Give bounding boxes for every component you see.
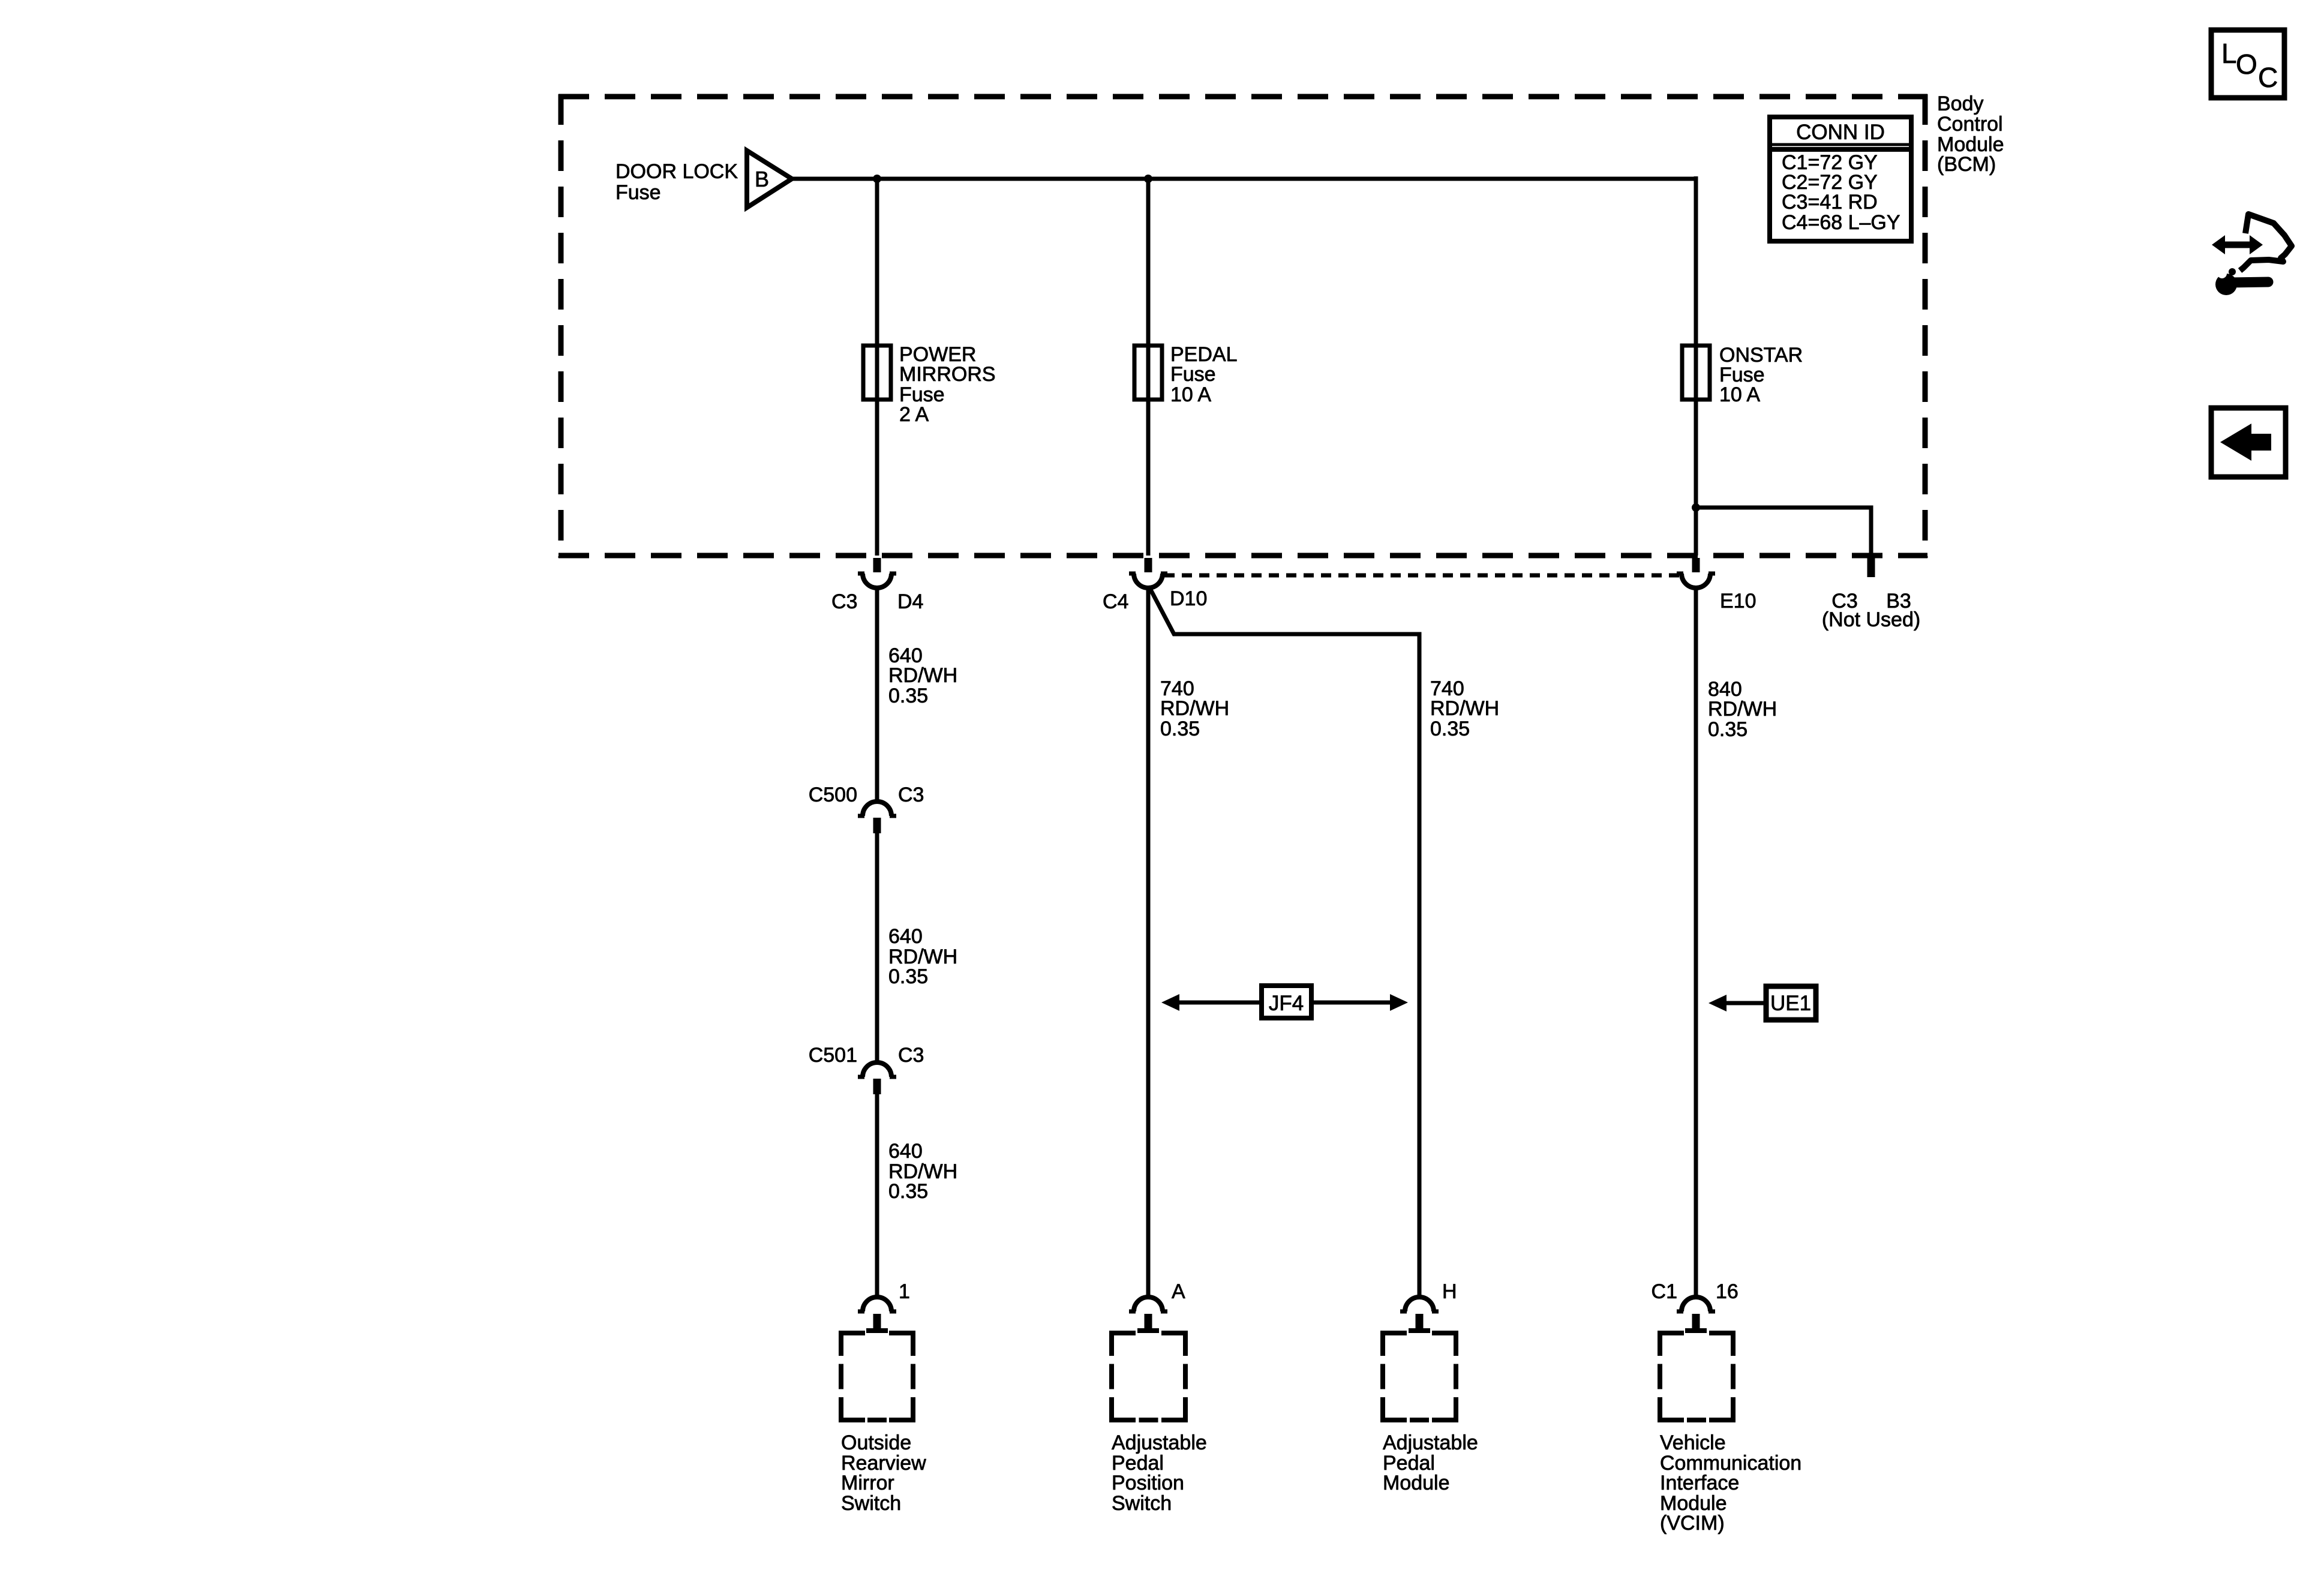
svg-text:10 A: 10 A <box>1719 383 1760 406</box>
UE1 harness marker <box>1709 986 1816 1020</box>
svg-text:0.35: 0.35 <box>888 685 928 707</box>
wire branch to B3 stub <box>1696 508 1871 556</box>
svg-text:RD/WH: RD/WH <box>888 664 957 687</box>
label POWER MIRRORS Fuse 2 A <box>899 343 996 426</box>
bus wire from triangle to ONSTAR drop <box>792 177 1696 181</box>
connector BCM C4 D10 (wire2) <box>1129 558 1167 588</box>
svg-text:0.35: 0.35 <box>1430 718 1470 740</box>
svg-text:Vehicle: Vehicle <box>1660 1431 1726 1454</box>
junction dot wire1 <box>873 175 881 183</box>
svg-text:0.35: 0.35 <box>1708 718 1747 741</box>
svg-text:CONN ID: CONN ID <box>1796 121 1885 144</box>
svg-text:Switch: Switch <box>841 1492 901 1515</box>
svg-text:Control: Control <box>1937 113 2003 136</box>
svg-text:Switch: Switch <box>1112 1492 1172 1515</box>
svg-text:Fuse: Fuse <box>615 181 661 204</box>
svg-text:D10: D10 <box>1170 587 1207 610</box>
wire 1 (POWER MIRRORS) vertical inside BCM <box>875 179 879 556</box>
Adjustable Pedal Module box <box>1383 1331 1456 1422</box>
CONN ID table <box>1770 117 1911 241</box>
svg-text:A: A <box>1172 1280 1185 1303</box>
svg-text:RD/WH: RD/WH <box>1430 697 1499 720</box>
wire 1 segment below D4 <box>875 586 879 804</box>
JF4 harness marker <box>1161 986 1408 1018</box>
POWER MIRRORS fuse <box>863 346 891 400</box>
double-headed arrow <box>2223 242 2252 248</box>
svg-text:MIRRORS: MIRRORS <box>899 363 996 386</box>
DOOR LOCK Fuse label <box>615 160 738 204</box>
wire label 640 RD/WH 0.35 (middle) <box>888 925 957 988</box>
wire label 740 RD/WH 0.35 (wire3) <box>1430 677 1499 740</box>
svg-text:1: 1 <box>899 1280 910 1303</box>
wire label 640 RD/WH 0.35 (lower) <box>888 1140 957 1203</box>
svg-text:D4: D4 <box>897 590 923 613</box>
wrench <box>2215 274 2237 295</box>
svg-text:RD/WH: RD/WH <box>1708 698 1777 721</box>
label PEDAL Fuse 10 A <box>1170 343 1238 406</box>
svg-text:E10: E10 <box>1720 590 1756 613</box>
label Vehicle Communication Interface Module (VCIM) <box>1660 1431 1801 1535</box>
svg-text:Adjustable: Adjustable <box>1383 1431 1478 1454</box>
junction dot wire2 <box>1144 175 1152 183</box>
svg-text:C3: C3 <box>898 784 924 806</box>
ONSTAR fuse <box>1682 346 1710 400</box>
label ONSTAR Fuse 10 A <box>1719 344 1803 406</box>
svg-text:0.35: 0.35 <box>888 1180 928 1203</box>
wire 4 (ONSTAR) vertical inside BCM <box>1694 176 1698 556</box>
svg-text:2 A: 2 A <box>899 403 929 426</box>
svg-text:Mirror: Mirror <box>841 1472 894 1494</box>
wire 2 (PEDAL) vertical inside BCM <box>1146 179 1151 556</box>
LOC icon box (top right) <box>2211 30 2284 98</box>
bottom connector pin 1 (wire1) <box>858 1297 896 1333</box>
svg-text:0.35: 0.35 <box>888 965 928 988</box>
svg-text:RD/WH: RD/WH <box>1160 697 1229 720</box>
svg-text:Adjustable: Adjustable <box>1112 1431 1207 1454</box>
label Adjustable Pedal Module <box>1383 1431 1478 1494</box>
svg-text:H: H <box>1442 1280 1457 1303</box>
feed triangle B <box>747 151 792 208</box>
wire branch D10 to Adjustable Pedal Module <box>1149 587 1419 1299</box>
wire label 640 RD/WH 0.35 (upper) <box>888 644 957 707</box>
svg-text:10 A: 10 A <box>1170 383 1211 406</box>
svg-text:DOOR LOCK: DOOR LOCK <box>615 160 738 183</box>
connector BCM E10 (wire4) <box>1677 558 1715 588</box>
svg-text:C1: C1 <box>1652 1280 1677 1303</box>
svg-text:C500: C500 <box>809 784 857 806</box>
svg-text:O: O <box>2236 49 2257 80</box>
back arrow icon box <box>2211 408 2286 477</box>
bottom connector pin A (wire2) <box>1129 1297 1167 1333</box>
inline connector C501 C3 <box>858 1062 896 1094</box>
Adjustable Pedal Position Switch box <box>1112 1331 1185 1422</box>
svg-text:UE1: UE1 <box>1770 992 1811 1015</box>
wire 1 segment below C500 <box>875 833 879 1065</box>
wire 4 segment below E10 <box>1694 586 1698 1299</box>
svg-text:C4: C4 <box>1103 590 1128 613</box>
connector pin B3 (Not Used) <box>1867 558 1875 577</box>
svg-text:(Not Used): (Not Used) <box>1822 608 1920 631</box>
svg-text:C501: C501 <box>809 1044 857 1067</box>
svg-text:(BCM): (BCM) <box>1937 153 1996 176</box>
svg-text:Position: Position <box>1112 1472 1184 1494</box>
svg-text:Fuse: Fuse <box>1170 363 1216 386</box>
svg-text:Module: Module <box>1383 1472 1450 1494</box>
svg-text:Body: Body <box>1937 92 1984 115</box>
svg-text:C: C <box>2258 62 2278 93</box>
label Adjustable Pedal Position Switch <box>1112 1431 1207 1515</box>
PEDAL fuse <box>1134 346 1162 400</box>
svg-text:C3=41 RD: C3=41 RD <box>1782 191 1878 214</box>
svg-text:16: 16 <box>1716 1280 1739 1303</box>
wire label 740 RD/WH 0.35 (wire2) <box>1160 677 1229 740</box>
wire 2 segment below D10 <box>1146 586 1151 1299</box>
Vehicle Communication Interface Module (VCIM) box <box>1660 1331 1733 1422</box>
service icon: double arrow, part outline, wrench <box>2212 214 2292 295</box>
bottom connector pin H (wire3) <box>1400 1297 1439 1333</box>
svg-text:Interface: Interface <box>1660 1472 1739 1494</box>
svg-text:B: B <box>755 167 769 191</box>
inline connector C500 C3 <box>858 801 896 833</box>
wire 1 segment below C501 <box>875 1094 879 1299</box>
svg-text:640: 640 <box>888 1140 923 1163</box>
bottom connector pin C1 16 (wire4) <box>1677 1297 1715 1333</box>
svg-text:JF4: JF4 <box>1269 992 1304 1015</box>
svg-text:Outside: Outside <box>841 1431 911 1454</box>
svg-text:(VCIM): (VCIM) <box>1660 1512 1725 1535</box>
svg-text:640: 640 <box>888 925 923 948</box>
label Body Control Module (BCM) <box>1937 92 2004 176</box>
connector BCM C3 D4 (wire1) <box>858 558 896 588</box>
svg-text:0.35: 0.35 <box>1160 718 1200 740</box>
wire label 840 RD/WH 0.35 (wire4) <box>1708 678 1777 741</box>
junction dot ONSTAR branch <box>1692 503 1700 512</box>
svg-text:L: L <box>2221 38 2237 69</box>
svg-text:C3: C3 <box>831 590 857 613</box>
svg-text:C3: C3 <box>898 1044 924 1067</box>
Outside Rearview Mirror Switch box <box>841 1331 913 1422</box>
label Outside Rearview Mirror Switch <box>841 1431 926 1515</box>
BCM dashed box (Body Control Module) <box>559 94 1927 558</box>
dotted line between D10 and E10 connectors <box>1164 574 1680 578</box>
svg-text:C4=68 L–GY: C4=68 L–GY <box>1782 211 1900 234</box>
part outline <box>2240 214 2292 271</box>
